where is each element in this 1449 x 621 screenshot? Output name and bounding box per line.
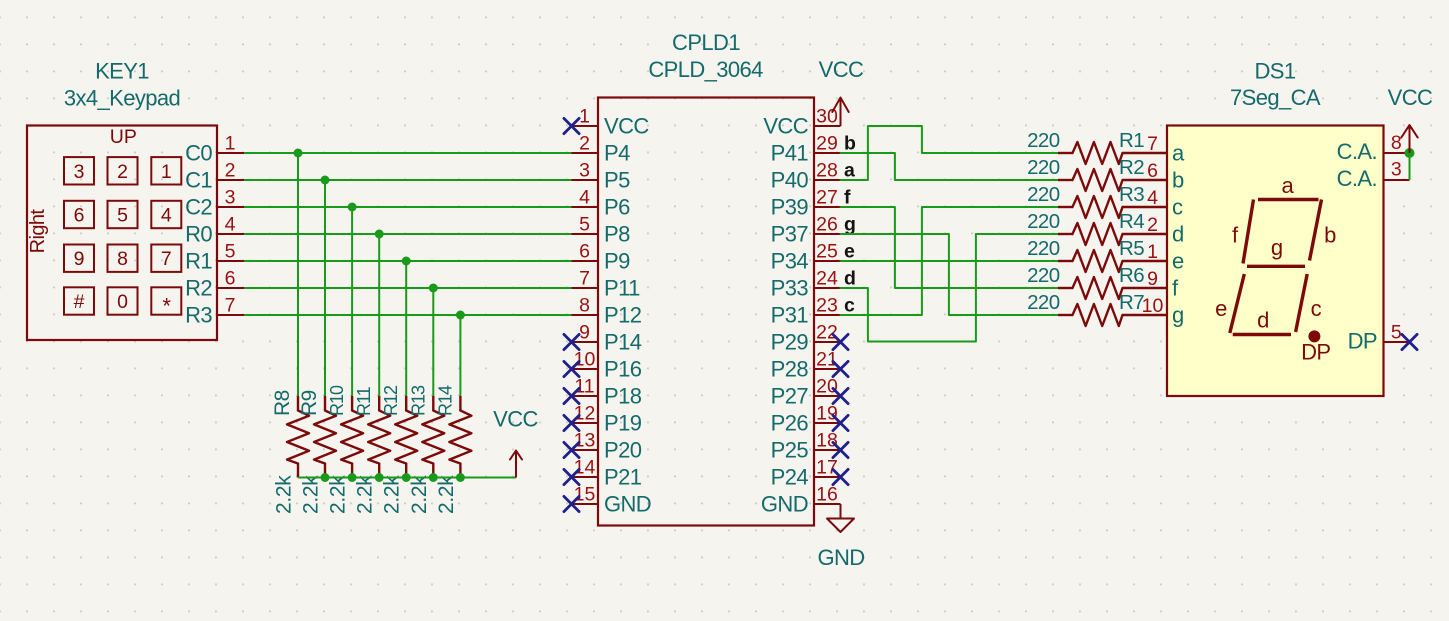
CPLD pin 5 P8 bbox=[572, 214, 631, 247]
wire R1 down to resistor R12 bbox=[405, 261, 407, 396]
svg-text:P34: P34 bbox=[771, 249, 809, 274]
svg-text:P24: P24 bbox=[771, 465, 809, 490]
keypad key 2 bbox=[108, 157, 138, 184]
svg-text:20: 20 bbox=[816, 376, 838, 398]
keypad pin 1 C0 bbox=[185, 133, 244, 166]
wire C0 down to resistor R8 bbox=[297, 153, 299, 396]
resistor R1 220 bbox=[1027, 129, 1167, 164]
CPLD pin 12 P19 bbox=[572, 403, 642, 436]
svg-text:P31: P31 bbox=[771, 303, 809, 328]
svg-text:6: 6 bbox=[579, 241, 590, 263]
resistor R12 2.2k vertical bbox=[381, 385, 418, 514]
svg-text:b: b bbox=[844, 133, 856, 155]
CPLD pin 30 VCC bbox=[763, 106, 840, 139]
DS1 pin name a bbox=[1172, 141, 1185, 166]
CPLD pin 26 P37 bbox=[771, 214, 841, 247]
svg-text:R7: R7 bbox=[1119, 291, 1144, 314]
svg-text:9: 9 bbox=[74, 248, 85, 270]
svg-text:UP: UP bbox=[110, 126, 137, 148]
resistor R8 2.2k vertical bbox=[271, 390, 309, 514]
svg-text:R1: R1 bbox=[1119, 129, 1144, 152]
svg-text:R14: R14 bbox=[435, 385, 455, 416]
resistor R5 220 bbox=[1027, 237, 1167, 272]
CPLD pin 13 P20 bbox=[572, 430, 642, 463]
no-connect X pin 19 bbox=[833, 415, 848, 430]
wire C0 keypad to CPLD bbox=[244, 152, 572, 154]
svg-text:4: 4 bbox=[1147, 187, 1158, 209]
DS1 pin name d bbox=[1172, 222, 1184, 247]
svg-text:VCC: VCC bbox=[819, 57, 864, 82]
svg-text:R3: R3 bbox=[1119, 183, 1144, 206]
svg-text:7: 7 bbox=[579, 268, 590, 290]
svg-text:e: e bbox=[1215, 296, 1227, 321]
wire net a CPLD to resistor bbox=[841, 126, 1059, 180]
junction pull-up bus bbox=[321, 473, 330, 482]
svg-text:4: 4 bbox=[161, 205, 172, 227]
junction R3 node bbox=[456, 311, 465, 320]
svg-text:220: 220 bbox=[1027, 264, 1060, 287]
svg-text:28: 28 bbox=[816, 160, 838, 182]
svg-text:17: 17 bbox=[816, 457, 838, 479]
svg-text:7Seg_CA: 7Seg_CA bbox=[1230, 85, 1321, 110]
svg-text:C1: C1 bbox=[185, 168, 212, 193]
segment DP dot bbox=[1301, 330, 1330, 364]
wire net g CPLD to resistor bbox=[841, 234, 1059, 315]
svg-text:P16: P16 bbox=[604, 357, 642, 382]
segment f bbox=[1232, 200, 1254, 264]
svg-text:P18: P18 bbox=[604, 384, 642, 409]
wire pin3 to VCC bbox=[1409, 153, 1411, 180]
svg-text:16: 16 bbox=[816, 484, 838, 506]
junction R2 node bbox=[429, 284, 438, 293]
CPLD pin 16 GND bbox=[761, 484, 841, 517]
CPLD pin 23 P31 bbox=[771, 295, 841, 328]
svg-text:3x4_Keypad: 3x4_Keypad bbox=[64, 86, 180, 111]
svg-text:9: 9 bbox=[1147, 268, 1158, 290]
keypad pin 3 C2 bbox=[185, 187, 244, 220]
DS1 pin 1 number bbox=[1147, 241, 1158, 263]
svg-text:R1: R1 bbox=[185, 249, 212, 274]
svg-text:25: 25 bbox=[816, 241, 838, 263]
svg-text:R13: R13 bbox=[408, 385, 428, 416]
svg-text:7: 7 bbox=[225, 295, 236, 317]
svg-text:220: 220 bbox=[1027, 129, 1060, 152]
svg-text:R4: R4 bbox=[1119, 210, 1144, 233]
svg-text:8: 8 bbox=[1391, 132, 1402, 154]
wire C2 down to resistor R10 bbox=[351, 207, 353, 396]
svg-text:R10: R10 bbox=[327, 385, 347, 416]
wire R3 down to resistor R14 bbox=[459, 315, 461, 396]
CPLD pin 2 P4 bbox=[572, 133, 631, 166]
svg-text:a: a bbox=[844, 160, 855, 182]
svg-text:P8: P8 bbox=[604, 222, 630, 247]
svg-text:R3: R3 bbox=[185, 303, 212, 328]
svg-text:11: 11 bbox=[574, 376, 594, 398]
resistor R6 220 bbox=[1027, 264, 1167, 299]
svg-text:P20: P20 bbox=[604, 438, 642, 463]
no-connect X pin 10 bbox=[564, 361, 579, 376]
CPLD pin 17 P24 bbox=[771, 457, 841, 490]
keypad pin 5 R1 bbox=[185, 241, 244, 274]
keypad key 7 bbox=[151, 245, 181, 272]
svg-text:R2: R2 bbox=[185, 276, 212, 301]
svg-text:5: 5 bbox=[117, 205, 128, 227]
DS1 pin 5 DP bbox=[1348, 322, 1410, 354]
svg-text:P26: P26 bbox=[771, 411, 809, 436]
resistor R10 2.2k vertical bbox=[327, 385, 364, 514]
CPLD U1 body outline bbox=[598, 98, 814, 526]
net label d bbox=[844, 268, 856, 290]
keypad KEY1 reference label bbox=[95, 59, 149, 84]
keypad key 1 bbox=[151, 157, 181, 184]
svg-text:7: 7 bbox=[161, 248, 172, 270]
DS1 pin name b bbox=[1172, 168, 1184, 193]
svg-text:10: 10 bbox=[1142, 295, 1164, 317]
keypad key 3 bbox=[64, 157, 94, 184]
net label a bbox=[844, 160, 855, 182]
svg-text:15: 15 bbox=[574, 484, 596, 506]
svg-text:3: 3 bbox=[579, 160, 590, 182]
svg-text:2.2k: 2.2k bbox=[381, 475, 404, 514]
svg-text:a: a bbox=[1281, 173, 1294, 198]
svg-text:a: a bbox=[1172, 141, 1185, 166]
CPLD pin 7 P11 bbox=[572, 268, 641, 301]
svg-text:P25: P25 bbox=[771, 438, 809, 463]
svg-text:P6: P6 bbox=[604, 195, 630, 220]
svg-text:P29: P29 bbox=[771, 330, 809, 355]
svg-text:R9: R9 bbox=[298, 390, 321, 416]
svg-text:P27: P27 bbox=[771, 384, 809, 409]
svg-text:19: 19 bbox=[816, 403, 838, 425]
no-connect X pin 17 bbox=[833, 469, 848, 484]
svg-text:d: d bbox=[1172, 222, 1184, 247]
wire C2 keypad to CPLD bbox=[244, 206, 572, 208]
wire R2 down to resistor R13 bbox=[432, 288, 434, 396]
svg-text:P37: P37 bbox=[771, 222, 809, 247]
DS1 pin 9 number bbox=[1147, 268, 1158, 290]
wire R2 keypad to CPLD bbox=[244, 287, 572, 289]
svg-text:5: 5 bbox=[225, 241, 236, 263]
wire net b CPLD to resistor bbox=[841, 153, 1059, 180]
svg-text:27: 27 bbox=[816, 187, 838, 209]
DS1 pin name c bbox=[1172, 195, 1183, 220]
wire C1 down to resistor R9 bbox=[324, 180, 326, 396]
display DS1 value 7Seg_CA bbox=[1230, 85, 1321, 110]
svg-text:R8: R8 bbox=[271, 390, 294, 416]
CPLD pin 20 P27 bbox=[771, 376, 841, 409]
keypad pin 2 C1 bbox=[185, 160, 244, 193]
DS1 pin 8 C.A. bbox=[1337, 132, 1410, 164]
CPLD pin 14 P21 bbox=[572, 457, 642, 490]
svg-text:DP: DP bbox=[1301, 340, 1330, 365]
CPLD pin 1 VCC bbox=[572, 106, 650, 139]
svg-text:2: 2 bbox=[225, 160, 236, 182]
CPLD pin 21 P28 bbox=[771, 349, 841, 382]
svg-text:14: 14 bbox=[574, 457, 596, 479]
keypad KEY1 value 3x4_Keypad bbox=[64, 86, 180, 111]
segment e bbox=[1215, 274, 1244, 333]
svg-text:C.A.: C.A. bbox=[1337, 139, 1377, 164]
svg-text:P4: P4 bbox=[604, 141, 630, 166]
svg-text:2: 2 bbox=[117, 161, 128, 183]
no-connect X pin 13 bbox=[564, 442, 579, 457]
svg-text:C.A.: C.A. bbox=[1337, 166, 1377, 191]
svg-text:VCC: VCC bbox=[1388, 85, 1433, 110]
net label f bbox=[844, 187, 851, 209]
svg-text:1: 1 bbox=[579, 106, 590, 128]
svg-text:6: 6 bbox=[1147, 160, 1158, 182]
keypad key # bbox=[64, 287, 94, 314]
svg-text:CPLD_3064: CPLD_3064 bbox=[648, 57, 763, 82]
DS1 pin name f bbox=[1172, 276, 1179, 301]
svg-text:GND: GND bbox=[817, 545, 864, 570]
svg-text:P28: P28 bbox=[771, 357, 809, 382]
svg-text:2.2k: 2.2k bbox=[300, 475, 323, 514]
junction pull-up bus bbox=[348, 473, 357, 482]
svg-text:P11: P11 bbox=[604, 276, 640, 301]
svg-text:1: 1 bbox=[225, 133, 236, 155]
keypad key 8 bbox=[108, 245, 138, 272]
keypad key 6 bbox=[64, 201, 94, 228]
resistor R3 220 bbox=[1027, 183, 1167, 218]
svg-text:KEY1: KEY1 bbox=[95, 59, 149, 84]
svg-text:d: d bbox=[1257, 308, 1269, 333]
svg-text:1: 1 bbox=[1147, 241, 1158, 263]
svg-text:8: 8 bbox=[117, 248, 128, 270]
svg-text:P21: P21 bbox=[604, 465, 642, 490]
junction C0 node bbox=[294, 149, 303, 158]
svg-text:Right: Right bbox=[27, 209, 49, 254]
resistor R2 220 bbox=[1027, 156, 1167, 191]
svg-text:220: 220 bbox=[1027, 210, 1060, 233]
svg-text:6: 6 bbox=[74, 205, 85, 227]
CPLD pin 10 P16 bbox=[572, 349, 642, 382]
svg-text:P41: P41 bbox=[771, 141, 809, 166]
svg-text:18: 18 bbox=[816, 430, 838, 452]
junction R1 node bbox=[402, 257, 411, 266]
svg-text:5: 5 bbox=[1391, 322, 1402, 344]
svg-text:0: 0 bbox=[117, 291, 128, 313]
svg-text:c: c bbox=[1172, 195, 1183, 220]
svg-text:P39: P39 bbox=[771, 195, 809, 220]
keypad key 9 bbox=[64, 245, 94, 272]
svg-text:P5: P5 bbox=[604, 168, 630, 193]
display DS1 reference label bbox=[1255, 59, 1296, 84]
power symbol VCC (pull-ups) bbox=[493, 407, 538, 478]
svg-text:R6: R6 bbox=[1119, 264, 1144, 287]
DS1 pin 7 number bbox=[1147, 133, 1158, 155]
junction C1 node bbox=[321, 176, 330, 185]
resistor R14 2.2k vertical bbox=[435, 385, 472, 514]
svg-text:GND: GND bbox=[761, 492, 808, 517]
svg-text:#: # bbox=[74, 291, 85, 313]
resistor R7 220 bbox=[1027, 291, 1167, 326]
svg-text:R12: R12 bbox=[381, 385, 401, 416]
wire net f CPLD to resistor bbox=[841, 207, 1059, 288]
svg-text:2.2k: 2.2k bbox=[327, 475, 350, 514]
segment g bbox=[1247, 235, 1305, 266]
net label b bbox=[844, 133, 856, 155]
svg-text:CPLD1: CPLD1 bbox=[672, 30, 740, 55]
junction pull-up bus bbox=[375, 473, 384, 482]
segment b bbox=[1310, 200, 1337, 261]
keypad key 4 bbox=[151, 201, 181, 228]
DS1 pin 10 number bbox=[1142, 295, 1164, 317]
wire C1 keypad to CPLD bbox=[244, 179, 572, 181]
keypad pin 7 R3 bbox=[185, 295, 244, 328]
resistor R4 220 bbox=[1027, 210, 1167, 245]
no-connect X pin 21 bbox=[833, 361, 848, 376]
power symbol VCC (CPLD pin 30) bbox=[819, 57, 864, 126]
svg-text:g: g bbox=[844, 214, 856, 236]
svg-text:c: c bbox=[844, 295, 855, 317]
svg-text:2.2k: 2.2k bbox=[435, 475, 458, 514]
power symbol GND (CPLD pin 16) bbox=[817, 504, 864, 570]
svg-text:R0: R0 bbox=[185, 222, 212, 247]
svg-text:VCC: VCC bbox=[604, 114, 649, 139]
svg-text:13: 13 bbox=[574, 430, 596, 452]
svg-text:c: c bbox=[1311, 296, 1322, 321]
svg-text:2.2k: 2.2k bbox=[408, 475, 431, 514]
svg-text:26: 26 bbox=[816, 214, 838, 236]
CPLD pin 22 P29 bbox=[771, 322, 841, 355]
svg-text:R11: R11 bbox=[354, 386, 374, 416]
no-connect X pin 14 bbox=[564, 469, 579, 484]
CPLD pin 28 P40 bbox=[771, 160, 841, 193]
CPLD pin 8 P12 bbox=[572, 295, 642, 328]
no-connect X pin 22 bbox=[833, 334, 848, 349]
svg-text:f: f bbox=[844, 187, 851, 209]
resistor R11 2.2k vertical bbox=[354, 386, 391, 514]
svg-text:d: d bbox=[844, 268, 856, 290]
svg-text:22: 22 bbox=[816, 322, 838, 344]
segment a bbox=[1258, 173, 1319, 200]
svg-text:3: 3 bbox=[1391, 159, 1402, 181]
CPLD U1 value CPLD_3064 bbox=[648, 57, 763, 82]
CPLD pin 11 P18 bbox=[572, 376, 642, 409]
DS1 pin 2 number bbox=[1147, 214, 1158, 236]
no-connect X pin 5 bbox=[1402, 334, 1417, 349]
svg-text:5: 5 bbox=[579, 214, 590, 236]
svg-text:29: 29 bbox=[816, 133, 838, 155]
net label c bbox=[844, 295, 855, 317]
wire net c CPLD to resistor bbox=[841, 207, 1059, 315]
CPLD U1 reference CPLD1 bbox=[672, 30, 740, 55]
svg-text:C2: C2 bbox=[185, 195, 212, 220]
keypad key 5 bbox=[108, 201, 138, 228]
svg-text:3: 3 bbox=[74, 161, 85, 183]
junction VCC node bbox=[1405, 148, 1415, 158]
svg-text:DS1: DS1 bbox=[1255, 59, 1296, 84]
CPLD pin 18 P25 bbox=[771, 430, 841, 463]
segment d bbox=[1233, 308, 1291, 335]
svg-text:220: 220 bbox=[1027, 237, 1060, 260]
CPLD pin 15 GND bbox=[572, 484, 652, 517]
display DS1 body bbox=[1167, 126, 1384, 397]
svg-text:VCC: VCC bbox=[763, 114, 808, 139]
svg-text:R5: R5 bbox=[1119, 237, 1144, 260]
DS1 pin name e bbox=[1172, 249, 1184, 274]
svg-text:*: * bbox=[162, 294, 171, 319]
svg-text:b: b bbox=[1324, 222, 1336, 247]
svg-text:2.2k: 2.2k bbox=[273, 475, 296, 514]
CPLD pin 25 P34 bbox=[771, 241, 841, 274]
svg-text:P40: P40 bbox=[771, 168, 809, 193]
segment c bbox=[1296, 274, 1322, 332]
resistor R9 2.2k vertical bbox=[298, 390, 336, 514]
CPLD pin 24 P33 bbox=[771, 268, 841, 301]
wire net d CPLD to resistor bbox=[841, 234, 1059, 342]
junction pull-up bus bbox=[429, 473, 438, 482]
no-connect X pin 20 bbox=[833, 388, 848, 403]
svg-text:220: 220 bbox=[1027, 183, 1060, 206]
DS1 pin 4 number bbox=[1147, 187, 1158, 209]
DS1 pin 3 C.A. bbox=[1337, 159, 1410, 192]
svg-text:R2: R2 bbox=[1119, 156, 1144, 179]
svg-text:24: 24 bbox=[816, 268, 838, 290]
resistor R13 2.2k vertical bbox=[408, 385, 445, 514]
svg-text:2: 2 bbox=[1147, 214, 1158, 236]
wire R1 keypad to CPLD bbox=[244, 260, 572, 262]
svg-text:12: 12 bbox=[574, 403, 596, 425]
svg-text:GND: GND bbox=[604, 492, 651, 517]
net label g bbox=[844, 214, 856, 236]
svg-text:220: 220 bbox=[1027, 156, 1060, 179]
keypad pin 4 R0 bbox=[185, 214, 244, 247]
svg-text:2: 2 bbox=[579, 133, 590, 155]
svg-text:e: e bbox=[1172, 249, 1184, 274]
keypad UP label bbox=[110, 126, 137, 148]
keypad KEY1 body outline bbox=[27, 126, 217, 341]
CPLD pin 19 P26 bbox=[771, 403, 841, 436]
no-connect X pin 12 bbox=[564, 415, 579, 430]
svg-text:g: g bbox=[1172, 303, 1184, 328]
wire R0 down to resistor R11 bbox=[378, 234, 380, 396]
wire pull-up bus to VCC bbox=[298, 477, 516, 479]
svg-text:DP: DP bbox=[1348, 329, 1377, 354]
CPLD pin 6 P9 bbox=[572, 241, 631, 274]
no-connect X pin 15 bbox=[564, 496, 579, 511]
no-connect X pin 11 bbox=[564, 388, 579, 403]
svg-text:P12: P12 bbox=[604, 303, 642, 328]
power symbol VCC (DS1) bbox=[1388, 85, 1433, 153]
svg-text:220: 220 bbox=[1027, 291, 1060, 314]
junction C2 node bbox=[348, 203, 357, 212]
svg-text:9: 9 bbox=[579, 322, 590, 344]
svg-text:P33: P33 bbox=[771, 276, 809, 301]
DS1 pin 6 number bbox=[1147, 160, 1158, 182]
svg-text:23: 23 bbox=[816, 295, 838, 317]
svg-text:e: e bbox=[844, 241, 855, 263]
no-connect X pin 9 bbox=[564, 334, 579, 349]
svg-text:4: 4 bbox=[225, 214, 236, 236]
svg-text:C0: C0 bbox=[185, 141, 212, 166]
keypad Right label (rotated) bbox=[27, 209, 49, 254]
keypad key * bbox=[151, 287, 181, 318]
junction pull-up bus bbox=[402, 473, 411, 482]
svg-text:P19: P19 bbox=[604, 411, 642, 436]
wire R0 keypad to CPLD bbox=[244, 233, 572, 235]
svg-text:3: 3 bbox=[225, 187, 236, 209]
wire R3 keypad to CPLD bbox=[244, 314, 572, 316]
CPLD pin 3 P5 bbox=[572, 160, 631, 193]
svg-text:10: 10 bbox=[574, 349, 596, 371]
keypad pin 6 R2 bbox=[185, 268, 244, 301]
svg-text:8: 8 bbox=[579, 295, 590, 317]
svg-text:P14: P14 bbox=[604, 330, 642, 355]
no-connect X pin 1 bbox=[564, 118, 579, 133]
svg-text:2.2k: 2.2k bbox=[354, 475, 377, 514]
